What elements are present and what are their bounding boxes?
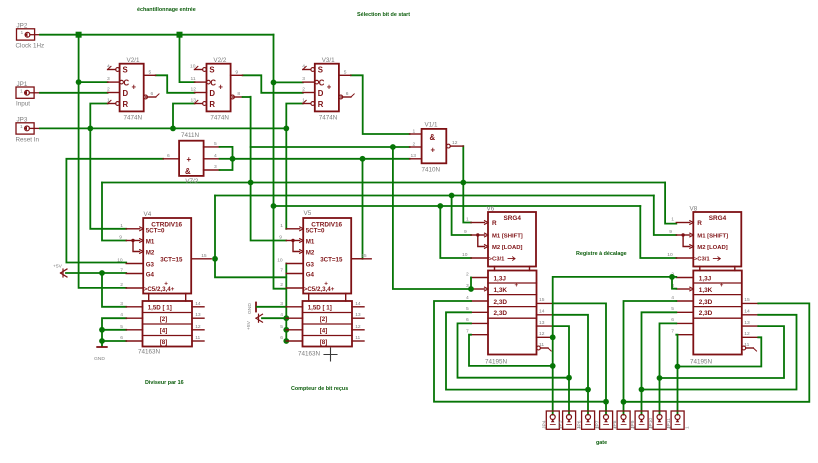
wire V8 Q15 loop — [624, 303, 810, 401]
svg-text:5: 5 — [344, 69, 347, 75]
svg-text:JP5: JP5 — [558, 420, 564, 429]
wire V8 D4 vertical to connector 8 — [676, 335, 677, 415]
connector JP1 (Input) — [16, 81, 40, 108]
svg-text:12: 12 — [452, 140, 458, 146]
svg-text:7474N: 7474N — [210, 114, 229, 121]
svg-text:JP10: JP10 — [648, 418, 654, 429]
svg-text:Registre à décalage: Registre à décalage — [576, 251, 627, 257]
svg-text:Diviseur par 16: Diviseur par 16 — [145, 380, 184, 386]
supply +5V symbol V5 — [256, 314, 263, 322]
wire V6 Q13 to loop vertical — [553, 326, 569, 414]
junction V8 loop D2 — [639, 387, 645, 393]
junction 7411 tie — [230, 156, 236, 162]
rail2 y195.5 (V4 TC net) — [215, 195, 654, 197]
svg-text:6: 6 — [346, 91, 349, 97]
svg-text:5: 5 — [149, 69, 152, 75]
junction V6 loop D2 — [585, 387, 591, 393]
junction clock drop A at V2/1 C — [76, 79, 82, 85]
svg-text:2: 2 — [302, 87, 305, 93]
wire clock drop A to V2/1 C and V4 clock — [79, 35, 127, 288]
junction V4 gnd x102 row4 — [99, 338, 105, 344]
svg-text:C: C — [319, 78, 325, 87]
origin cross mark — [324, 348, 337, 361]
wire V6 J pin tie down to K row — [470, 278, 472, 290]
svg-text:V3/1: V3/1 — [322, 57, 335, 64]
wire rail1 right end drop to V8 R — [665, 183, 676, 224]
junction rail2 at V4 TC — [212, 256, 218, 262]
svg-text:6: 6 — [167, 153, 170, 159]
svg-text:JP9: JP9 — [630, 420, 636, 429]
svg-text:R: R — [123, 100, 129, 109]
svg-text:+: + — [187, 155, 192, 164]
svg-text:S: S — [209, 66, 214, 75]
svg-text:V7/2: V7/2 — [185, 178, 198, 185]
wire V2/2 Q to V3/1 D — [243, 75, 303, 93]
junction V8 loop D1 — [621, 399, 627, 405]
svg-text:+: + — [431, 145, 436, 154]
wire V8 J/K drop to K row — [672, 277, 676, 289]
svg-text:1: 1 — [413, 128, 416, 134]
wire reset rail from JP3 — [40, 127, 286, 129]
svg-text:V2/1: V2/1 — [127, 57, 140, 64]
svg-text:+5V: +5V — [246, 320, 252, 330]
svg-text:R: R — [318, 100, 324, 109]
svg-text:Compteur de bit reçus: Compteur de bit reçus — [291, 386, 348, 392]
rail3 y206 (clock to shift registers) — [274, 205, 641, 207]
svg-text:+: + — [132, 83, 137, 92]
svg-text:4: 4 — [107, 64, 110, 70]
wire V5 +5V to row2 — [262, 317, 286, 319]
wire drop x362.5 to V5 3CT=15 — [362, 159, 364, 259]
flipflop V2/2 (7474N) — [190, 57, 243, 122]
junction rail147 at x392.9 — [390, 144, 396, 150]
svg-text:&: & — [430, 133, 436, 142]
svg-text:11: 11 — [191, 76, 196, 82]
svg-text:+: + — [327, 83, 332, 92]
nand gate V1/1 (7410N) — [410, 121, 464, 173]
wire V6 loop D3 horizontal and up to pin6 — [458, 323, 570, 377]
wire drop x392.9 to V6 J/K row — [393, 147, 471, 289]
wire V8 D3 vertical to connector 7 — [660, 323, 677, 414]
wire reset up to V2/2 R — [173, 104, 195, 129]
shift register V8 (74195N) — [667, 205, 758, 365]
wire V8 D1 vertical to connector 5 — [624, 301, 677, 415]
junction rail3 x440.3 — [437, 203, 443, 209]
svg-text:9: 9 — [235, 69, 238, 75]
svg-text:10: 10 — [190, 64, 196, 70]
wire V5 3CT=15 stub to drop — [351, 258, 362, 260]
svg-text:12: 12 — [191, 87, 197, 93]
svg-text:D: D — [123, 89, 129, 98]
rail1 y182.5 (load/reset net) — [102, 182, 665, 184]
svg-text:JP6: JP6 — [577, 420, 583, 429]
junction V8 loop D4 — [675, 364, 681, 370]
wire rail2 right end drop to V8 M1 — [654, 196, 677, 236]
svg-text:7474N: 7474N — [124, 114, 143, 121]
wire V6 loop D4 horizontal and up to pin7 — [469, 335, 553, 366]
counter V4 (74163N) — [117, 211, 211, 355]
svg-text:+5V: +5V — [53, 264, 63, 270]
junction reset rail x173 — [170, 125, 176, 131]
svg-text:JP7: JP7 — [595, 420, 601, 429]
svg-text:3: 3 — [107, 76, 110, 82]
junction V8 loop D3 — [657, 375, 663, 381]
wire rail1 left drop to V4 M1 — [102, 183, 126, 241]
wire V6 loop D2 horizontal and up to pin5 — [446, 312, 588, 389]
wire reset up to V3/1 R — [286, 104, 303, 129]
wire 7411 middle pin to tie — [220, 158, 233, 160]
connector JP11 — [671, 411, 684, 429]
svg-text:1: 1 — [684, 426, 690, 429]
junction V5 +5V row4 — [283, 338, 289, 344]
wire clock drop C to V5 clock, with rail3 branch — [274, 35, 287, 289]
junction rail3 at clock drop — [271, 203, 277, 209]
junction V5 +5V row2 — [283, 315, 289, 321]
wire V8 Q14 loop — [642, 315, 797, 390]
connector JP8 — [617, 411, 630, 429]
connector JP10 — [653, 411, 666, 429]
connector JP5 — [563, 411, 576, 429]
wire rail2 left drop through V4 TC to V5 G4 — [215, 196, 286, 278]
wire 7411 output tie rail y158.8 to V1/1 pin13 — [233, 158, 410, 160]
wire reset up to V2/1 R — [90, 104, 107, 129]
junction rail1 x463.3 (V1/1 out) — [460, 180, 466, 186]
connector JP7 — [600, 411, 613, 429]
wire drop x451.6 to V6 M1 — [452, 196, 471, 236]
wire reset down to V5 pin1 — [285, 128, 287, 228]
svg-text:Reset In: Reset In — [16, 137, 40, 144]
wire V8 Q12 loop to D4 and connector 8 — [678, 337, 762, 366]
junction rail158.8 at x362.5 — [360, 156, 366, 162]
svg-text:JP8: JP8 — [612, 420, 618, 429]
wire V6 Q15 to loop vertical — [553, 303, 606, 414]
wire V2/2 Qbar drop to rail1 and V5 M1 — [251, 97, 287, 241]
flipflop V2/1 (7474N) — [107, 57, 159, 122]
wire V1/1 output drop to rail1 and V6 R — [463, 146, 471, 222]
shift register V6 (74195N) — [462, 205, 553, 365]
junction V6 J/K tie — [468, 286, 474, 292]
svg-text:D: D — [318, 89, 324, 98]
junction reset rail x286.3 — [283, 125, 289, 131]
wire 7411 left input to V4 G3 — [66, 159, 163, 263]
svg-text:74163N: 74163N — [298, 350, 321, 357]
wire V2/1 Q to V2/2 D — [156, 75, 195, 93]
junction clock drop C at V3/1 C — [271, 80, 277, 86]
wire clock rail from JP2 — [40, 34, 274, 36]
wire rail y147 from Qbar drop to V1/1 pin2 — [251, 146, 410, 148]
svg-text:+: + — [218, 83, 223, 92]
svg-text:1: 1 — [302, 97, 305, 103]
wire V3/1 Q to V1/1 pin1 — [351, 75, 410, 134]
svg-text:échantillonnage entrée: échantillonnage entrée — [137, 7, 196, 13]
svg-text:R: R — [209, 100, 215, 109]
connector JP2 (Clock 1Hz) — [16, 23, 45, 50]
junction clock rail x179.5 — [177, 32, 183, 38]
junction V8 J/K tie — [669, 274, 675, 280]
wire V6 loop D1 horizontal and up to pin4 — [434, 301, 606, 402]
svg-text:D: D — [209, 89, 215, 98]
svg-text:13: 13 — [191, 97, 197, 103]
and gate V7/2 (7411N) — [163, 132, 220, 185]
svg-text:74195N: 74195N — [690, 358, 713, 365]
junction V6 loop D4 — [550, 363, 556, 369]
svg-text:JP11: JP11 — [666, 418, 672, 429]
wire JP1 to V2/1 D — [40, 92, 108, 94]
wire V8 D2 vertical to connector 6 — [642, 312, 677, 414]
ground symbol V5 (left of row1) — [255, 303, 257, 312]
svg-text:JP4: JP4 — [541, 420, 547, 429]
svg-text:1: 1 — [21, 30, 24, 36]
junction V6 loop D1 — [603, 399, 609, 405]
svg-text:V1/1: V1/1 — [425, 121, 438, 128]
junction V6 loop D3 — [566, 375, 572, 381]
svg-text:V5: V5 — [304, 210, 312, 217]
junction rail1 x250.6 — [248, 180, 254, 186]
wire V2/2 Qbar stub to drop — [243, 96, 251, 98]
svg-text:Sélection bit de start: Sélection bit de start — [357, 12, 410, 18]
svg-text:8: 8 — [237, 91, 240, 97]
wire reset down to V4 pin1 — [90, 128, 126, 228]
svg-text:S: S — [318, 66, 323, 75]
svg-text:74195N: 74195N — [485, 358, 508, 365]
wire drop x440.3 to V6 C — [440, 206, 471, 258]
svg-text:6: 6 — [151, 91, 154, 97]
svg-text:3: 3 — [302, 76, 305, 82]
svg-text:1: 1 — [20, 88, 23, 94]
wire V8 Q13 loop — [660, 326, 785, 378]
svg-text:13: 13 — [411, 153, 417, 159]
wire V4 +5V to G4 — [66, 272, 126, 274]
svg-text:Input: Input — [16, 101, 30, 108]
svg-text:7474N: 7474N — [319, 114, 338, 121]
svg-text:2: 2 — [413, 141, 416, 147]
wire V4 row3 — [102, 329, 126, 331]
junction clock rail x78.6 — [76, 32, 82, 38]
junction V5 +5V row3 — [283, 327, 289, 333]
connector JP9 — [635, 411, 648, 429]
wire V5 gnd to row1 — [257, 306, 286, 308]
flipflop V3/1 (7474N) — [302, 57, 354, 122]
wire V6 Q14 to loop vertical — [553, 315, 588, 415]
counter V5 (74163N) — [277, 210, 371, 357]
wire rail3 right end drop to V8 C — [640, 206, 676, 258]
wire V4 +5V drop to row1 — [102, 273, 126, 307]
svg-text:C: C — [210, 78, 216, 87]
svg-text:3: 3 — [214, 164, 217, 170]
svg-text:1: 1 — [107, 97, 110, 103]
wire clock to V3/1 C — [274, 81, 303, 83]
junction V4 +5V x102 — [99, 270, 105, 276]
wire V6 Q12 cascade up to V8 J/K feed and down to connector 1 — [553, 277, 677, 415]
connector JP4 — [546, 411, 559, 429]
svg-text:2: 2 — [107, 87, 110, 93]
wire V4 GND tie rows 2,3,4 — [102, 318, 126, 346]
svg-text:74163N: 74163N — [138, 348, 161, 355]
wire V5 G3 tie +5V vertical — [285, 264, 287, 342]
svg-text:7410N: 7410N — [422, 166, 441, 173]
junction V6 Q12 at vertical — [550, 334, 556, 340]
wire clock drop B to V2/2 C — [180, 35, 195, 82]
svg-text:C: C — [124, 78, 130, 87]
svg-text:GND: GND — [94, 356, 105, 362]
junction rail2 x451.6 — [449, 193, 455, 199]
svg-text:GND: GND — [247, 303, 253, 314]
svg-text:Clock 1Hz: Clock 1Hz — [16, 43, 45, 50]
wire clock to V2/1 C — [79, 81, 108, 83]
wire 7411 output tie bracket — [220, 147, 233, 170]
wire V4 row4 — [102, 340, 126, 342]
svg-text:5: 5 — [214, 141, 217, 147]
svg-text:7411N: 7411N — [181, 132, 200, 139]
junction reset rail x90.3 — [87, 125, 93, 131]
svg-text:V2/2: V2/2 — [213, 57, 226, 64]
connector JP6 — [582, 411, 595, 429]
svg-text:S: S — [123, 66, 128, 75]
svg-text:4: 4 — [214, 153, 217, 159]
svg-text:&: & — [185, 167, 191, 176]
svg-text:1: 1 — [20, 124, 23, 130]
svg-text:4: 4 — [302, 64, 305, 70]
svg-text:V4: V4 — [144, 211, 152, 218]
connector JP3 (Reset In) — [16, 117, 41, 144]
junction V4 gnd x102 row3 — [99, 327, 105, 333]
supply +5V symbol V4 — [61, 269, 68, 277]
ground symbol V4 — [97, 346, 107, 348]
svg-text:gate: gate — [596, 440, 607, 446]
